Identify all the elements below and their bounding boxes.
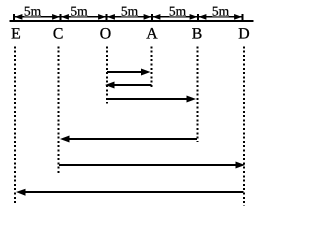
dotted guide line D (243, 46, 245, 206)
svg-text:5m: 5m (24, 4, 42, 19)
svg-text:A: A (146, 25, 158, 42)
dimension arrow segment 1 (E-C) (15, 4, 60, 20)
dotted guide line B (197, 46, 199, 142)
ruler baseline (10, 20, 254, 22)
ruler tick B (197, 14, 199, 21)
dotted guide line E (14, 46, 16, 203)
svg-text:C: C (53, 25, 64, 42)
ruler tick E (13, 14, 15, 21)
svg-text:E: E (11, 25, 21, 42)
dimension arrow segment 3 (O-A) (107, 4, 151, 20)
displacement arrow O to B (107, 96, 197, 103)
dotted guide line A (151, 46, 153, 87)
dimension arrow segment 2 (C-O) (61, 4, 106, 20)
displacement arrow C to D (59, 162, 245, 169)
svg-text:O: O (100, 25, 111, 42)
svg-text:D: D (238, 25, 249, 42)
displacement arrow O to A (107, 69, 151, 76)
displacement arrow A to O (105, 82, 152, 89)
ruler tick O (106, 14, 108, 21)
ruler tick C (60, 14, 62, 21)
svg-text:5m: 5m (70, 4, 88, 19)
svg-text:5m: 5m (121, 4, 139, 19)
svg-text:5m: 5m (212, 4, 230, 19)
dotted guide line O (106, 46, 108, 103)
ruler tick D (242, 14, 244, 21)
svg-text:5m: 5m (169, 4, 187, 19)
displacement arrow D to E (16, 189, 244, 196)
ruler tick A (151, 14, 153, 21)
displacement arrow B to C (60, 136, 197, 143)
dimension arrow segment 4 (A-B) (153, 4, 198, 20)
dotted guide line C (58, 46, 60, 174)
dimension arrow segment 5 (B-D) (199, 4, 242, 20)
svg-text:B: B (192, 25, 203, 42)
